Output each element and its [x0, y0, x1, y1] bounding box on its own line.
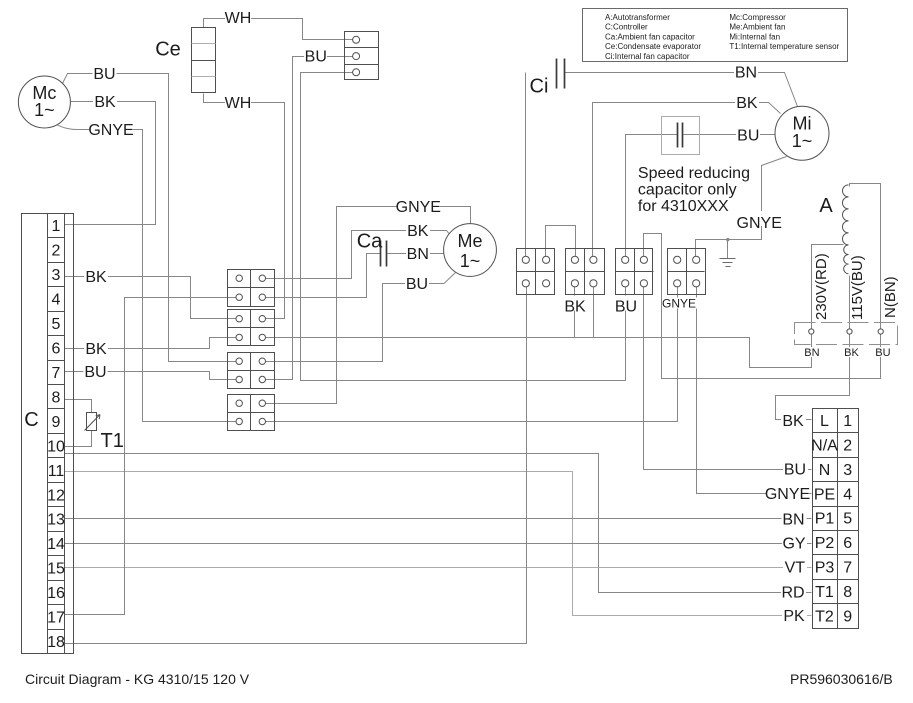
internal fan capacitor Ci: [530, 59, 565, 98]
svg-text:8: 8: [52, 389, 61, 406]
svg-text:GNYE: GNYE: [88, 122, 133, 139]
label GY row P2: [782, 536, 807, 553]
label BU Mi: [736, 128, 760, 145]
label BK Me: [406, 223, 430, 240]
wire Mc GNYE to central block B4 bottom-left: [50, 121, 237, 422]
svg-text:1~: 1~: [34, 100, 55, 120]
svg-text:WH: WH: [225, 95, 252, 112]
capacitor Ca: [357, 231, 387, 267]
wire BU-block bottom-right to N terminal row: [644, 287, 812, 470]
wire terminal 10 to RD T1 row: [65, 454, 812, 593]
wire GNYE-block bottom-left to central block B4 bottom-right: [265, 287, 678, 422]
terminal block GNYE (middle): [668, 249, 706, 295]
label PK row T2: [782, 608, 807, 625]
svg-text:P1: P1: [815, 511, 835, 528]
wire Mi GNYE to GNYE-block top-right: [696, 157, 787, 257]
svg-text:GY: GY: [782, 536, 805, 553]
svg-text:115V(BU): 115V(BU): [849, 255, 866, 320]
compressor Mc: [18, 76, 70, 128]
wire Mi BK to BK-block top-right: [593, 103, 781, 257]
svg-text:4: 4: [843, 486, 852, 503]
svg-text:N(BN): N(BN): [882, 276, 899, 318]
svg-text:6: 6: [843, 535, 852, 552]
svg-text:P3: P3: [815, 560, 835, 577]
svg-text:BU: BU: [737, 128, 759, 145]
wire top block bottom circle to BU-block bottom-left: [301, 73, 626, 381]
wire terminal 14 to GY P2 row: [65, 543, 812, 545]
svg-text:Ci: Ci: [530, 76, 549, 98]
wire Ci left lead down to block A top-left: [525, 73, 527, 257]
svg-text:Me:Ambient fan: Me:Ambient fan: [729, 23, 785, 32]
svg-text:PE: PE: [814, 486, 835, 503]
svg-text:PK: PK: [783, 608, 805, 625]
svg-text:A: A: [819, 195, 833, 217]
wire BU top (terminal block middle circle to central block B3 bottom-right): [265, 57, 353, 380]
note speed reducing capacitor: [638, 165, 750, 215]
svg-text:Ce: Ce: [155, 39, 181, 61]
svg-text:BU: BU: [875, 347, 890, 359]
label GNYE Mc: [88, 122, 133, 139]
ambient fan Me: [444, 224, 497, 277]
wire terminal 7 BU to central block B3 bottom-left: [65, 372, 237, 380]
label GNYE row PE: [765, 486, 810, 503]
svg-text:Ci:Internal fan capacitor: Ci:Internal fan capacitor: [605, 52, 690, 61]
wire GNYE-block bottom-right to PE terminal row: [697, 287, 812, 494]
label GNYE middle block: [662, 297, 697, 311]
svg-text:BK: BK: [564, 298, 586, 315]
label BU middle block: [614, 296, 639, 316]
central terminal block B2: [228, 310, 275, 346]
svg-text:BU: BU: [406, 276, 428, 293]
wire autotransformer coil bottom to 115V(BU) terminal: [849, 276, 851, 329]
svg-text:1~: 1~: [460, 251, 481, 271]
label BN Me: [406, 246, 430, 263]
wire sensor T1 to terminal 10: [65, 431, 92, 447]
controller terminal cell dividers: [48, 238, 65, 630]
wire WH top (Ce top lead to top terminal block): [204, 19, 353, 40]
label BU row N: [783, 462, 808, 479]
svg-text:T1: T1: [815, 584, 834, 601]
svg-text:BK: BK: [736, 95, 758, 112]
wire jumper block A top-right to BK-block top-left: [546, 226, 576, 257]
svg-text:16: 16: [47, 585, 65, 602]
svg-text:for 4310XXX: for 4310XXX: [638, 198, 729, 215]
wire terminal 6 BK to central block B2 bottom-left: [65, 338, 237, 349]
svg-text:18: 18: [47, 634, 65, 651]
wire central block B2 bottom-right to autotransformer BN terminal: [264, 335, 812, 368]
svg-text:230V(RD): 230V(RD): [813, 253, 830, 320]
controller C outer box: [22, 214, 74, 654]
svg-text:BK: BK: [782, 413, 804, 430]
svg-text:5: 5: [52, 316, 61, 333]
autotransformer A coil: [819, 185, 848, 274]
svg-text:Circuit Diagram - KG 4310/15 1: Circuit Diagram - KG 4310/15 120 V: [25, 671, 250, 687]
label BK under strip: [844, 347, 860, 359]
condensate evaporator Ce: [155, 28, 215, 93]
label BK Mc: [93, 94, 117, 111]
svg-text:Ce:Condensate evaporator: Ce:Condensate evaporator: [605, 42, 701, 51]
svg-text:Mi:Internal fan: Mi:Internal fan: [729, 32, 780, 41]
svg-text:BU: BU: [84, 364, 106, 381]
wire Mc BK to controller terminal 1: [65, 102, 156, 225]
svg-text:GNYE: GNYE: [737, 215, 782, 232]
wire Ci right lead BN to Mi: [565, 73, 798, 107]
svg-text:9: 9: [843, 608, 852, 625]
wire terminal 11 to PK T2 row: [65, 472, 812, 616]
autotransformer terminal strip: [795, 323, 898, 345]
svg-text:Ca: Ca: [357, 231, 383, 253]
svg-text:GNYE: GNYE: [765, 486, 810, 503]
wire terminal 17 to central block B1 bottom-left: [65, 298, 237, 615]
central terminal block B1: [228, 270, 275, 307]
svg-text:BK: BK: [407, 223, 429, 240]
svg-text:1: 1: [52, 218, 61, 235]
svg-text:BU: BU: [93, 66, 115, 83]
svg-text:BK: BK: [844, 347, 859, 359]
label BN Mi: [734, 65, 758, 82]
svg-text:RD: RD: [781, 584, 804, 601]
label BU Mc: [93, 66, 117, 83]
svg-text:Me: Me: [457, 231, 482, 251]
label RD row T1: [781, 584, 806, 601]
terminal block BU (middle): [616, 249, 654, 295]
label VT row P3: [783, 560, 807, 577]
svg-text:C:Controller: C:Controller: [605, 23, 648, 32]
svg-text:5: 5: [843, 511, 852, 528]
svg-text:BK: BK: [85, 269, 107, 286]
svg-text:14: 14: [47, 536, 65, 553]
label BK middle block: [563, 296, 588, 316]
label GNYE Mi: [737, 211, 782, 232]
wire terminal 15 to VT P3 row: [65, 567, 812, 569]
svg-text:BK: BK: [85, 341, 107, 358]
label BK Mi: [735, 95, 759, 112]
wire BK-block bottom-right stub: [593, 287, 595, 338]
svg-text:BN: BN: [735, 65, 757, 82]
svg-text:BU: BU: [615, 298, 637, 315]
label BU under strip: [875, 347, 891, 359]
svg-text:15: 15: [47, 561, 65, 578]
svg-text:GNYE: GNYE: [396, 199, 441, 216]
svg-text:Ca:Ambient fan capacitor: Ca:Ambient fan capacitor: [605, 32, 695, 41]
right terminal strip L..T2 / 1..9: [811, 409, 858, 629]
label BU top: [304, 49, 327, 66]
svg-text:6: 6: [52, 341, 61, 358]
wire capacitor Ca right plate to Me BN: [388, 253, 444, 255]
svg-text:7: 7: [843, 560, 852, 577]
label WH top: [225, 10, 252, 27]
wire 115V(BU) terminal BK to L row: [776, 335, 850, 420]
speed reducing capacitor box and plates: [662, 117, 700, 155]
svg-text:T1: T1: [101, 430, 124, 452]
svg-text:capacitor only: capacitor only: [638, 181, 737, 198]
svg-text:BU: BU: [305, 49, 327, 66]
svg-text:PR596030616/B: PR596030616/B: [790, 671, 893, 687]
svg-text:N/A: N/A: [811, 438, 838, 455]
svg-text:12: 12: [47, 487, 65, 504]
wire autotransformer tap to 230V(RD) terminal: [812, 245, 844, 329]
svg-text:1~: 1~: [792, 131, 813, 151]
wire terminal 13 to BN P1 row: [65, 518, 812, 520]
wire Mi BU left section through speed capacitor to BU-block top-left: [626, 135, 678, 257]
svg-text:1: 1: [843, 413, 852, 430]
label WH bottom: [225, 95, 252, 112]
label BU terminal 7: [84, 364, 108, 381]
svg-text:3: 3: [843, 462, 852, 479]
svg-text:BN: BN: [804, 347, 819, 359]
wire terminal 8 to sensor T1: [65, 400, 92, 413]
svg-text:2: 2: [843, 438, 852, 455]
svg-text:2: 2: [52, 243, 61, 260]
wire BU-block top-right to autotransformer N(BN) terminal: [644, 234, 881, 379]
svg-text:BK: BK: [94, 94, 116, 111]
wire Me BU to central block B3 top-right: [265, 273, 456, 362]
svg-text:A:Autotransformer: A:Autotransformer: [605, 13, 670, 22]
wire WH bottom (Ce bottom lead to central block B2 top-right): [204, 94, 285, 319]
wire terminal 18 to block A bottom-left: [65, 287, 527, 644]
svg-text:GNYE: GNYE: [662, 297, 696, 311]
svg-text:T1:Internal temperature sensor: T1:Internal temperature sensor: [729, 42, 839, 51]
svg-text:7: 7: [52, 365, 61, 382]
svg-text:3: 3: [52, 267, 61, 284]
svg-text:WH: WH: [225, 10, 252, 27]
terminal block A (middle, unlabeled): [517, 249, 555, 295]
svg-text:17: 17: [47, 610, 65, 627]
svg-text:BU: BU: [784, 462, 806, 479]
svg-text:N: N: [819, 462, 831, 479]
svg-text:11: 11: [48, 463, 65, 480]
legend box: [583, 9, 848, 62]
svg-text:BN: BN: [782, 511, 804, 528]
svg-text:10: 10: [47, 438, 65, 455]
svg-text:VT: VT: [785, 560, 806, 577]
svg-text:Mc:Compressor: Mc:Compressor: [729, 13, 786, 22]
label BN row P1: [782, 511, 807, 528]
svg-text:4: 4: [52, 292, 61, 309]
label BK row L: [781, 413, 806, 430]
controller terminal numbers 1-18: [47, 218, 65, 651]
wire central block B1 bottom-right to capacitor Ca left plate: [263, 254, 381, 298]
wire terminal 3 BK to central block B2 top-left: [65, 277, 237, 319]
wire ground tap: [727, 240, 729, 259]
svg-text:P2: P2: [815, 535, 835, 552]
sensor T1: [85, 413, 124, 453]
terminal block BK (middle): [566, 249, 605, 295]
label GNYE Me: [396, 199, 441, 216]
label BU Me: [405, 276, 429, 293]
central terminal block B4: [228, 395, 275, 431]
svg-text:8: 8: [843, 584, 852, 601]
ground: [720, 238, 736, 267]
svg-text:13: 13: [47, 512, 65, 529]
svg-text:L: L: [820, 413, 829, 430]
wire Mi BU right section: [684, 134, 776, 136]
central terminal block B3: [228, 353, 275, 389]
label BN under strip: [804, 347, 820, 359]
svg-text:9: 9: [52, 414, 61, 431]
label BK terminal 6: [84, 341, 108, 358]
wire Me GNYE to central block B4 top-right: [265, 207, 471, 404]
wire BK-block bottom-left stub: [574, 287, 576, 338]
svg-text:BN: BN: [407, 246, 429, 263]
top-right 3-row terminal block: [345, 32, 379, 80]
internal fan Mi: [775, 106, 829, 160]
wire autotransformer coil top to N(BN) terminal: [850, 184, 881, 329]
svg-text:Speed reducing: Speed reducing: [638, 165, 750, 182]
label BK terminal 3: [84, 269, 108, 286]
wire Me BK to central block B1 top-right: [263, 231, 451, 279]
svg-text:T2: T2: [815, 608, 834, 625]
svg-text:C: C: [24, 409, 38, 431]
wire Mc BU to central block B3 top-left: [63, 74, 237, 362]
